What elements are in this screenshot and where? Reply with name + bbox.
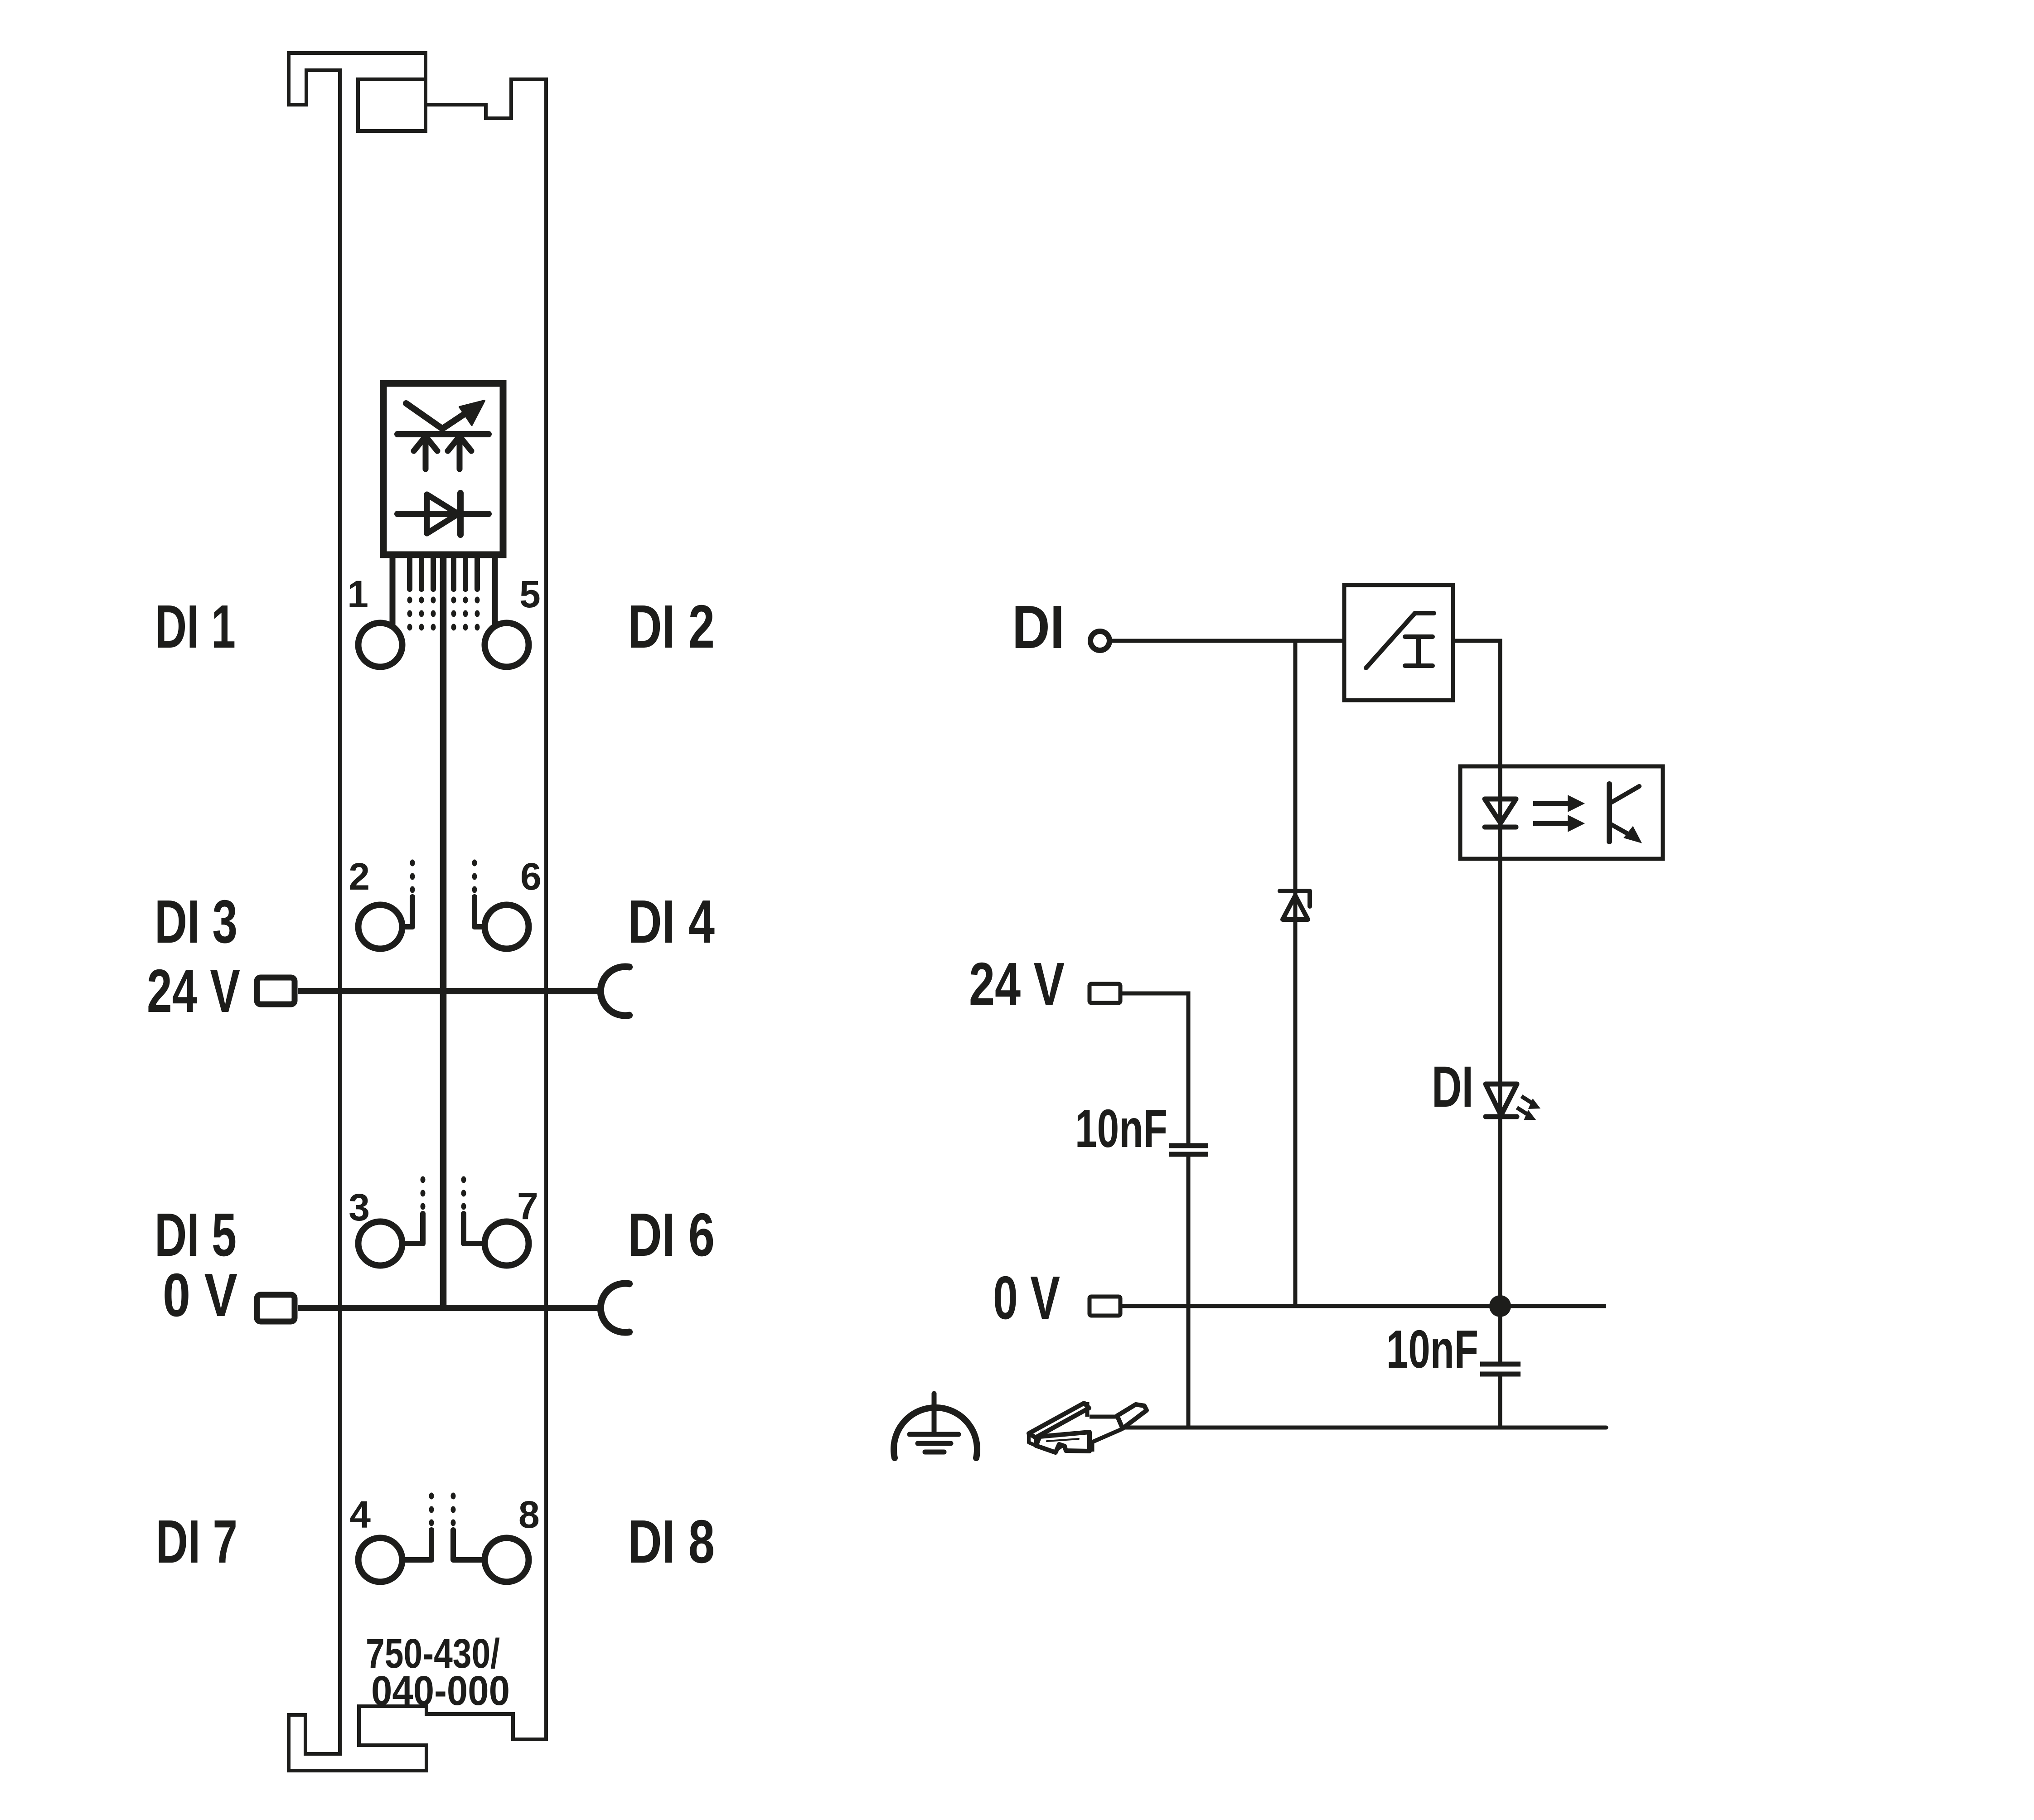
svg-text:DI 3: DI 3 [155, 887, 237, 956]
24V supply terminal [1090, 984, 1120, 1003]
wire junction to C2 [1498, 1306, 1502, 1362]
svg-text:DI 6: DI 6 [628, 1200, 715, 1269]
svg-text:1: 1 [347, 573, 368, 615]
svg-text:DI 2: DI 2 [628, 592, 715, 661]
24V wire [298, 988, 603, 994]
svg-text:10nF: 10nF [1075, 1099, 1167, 1159]
LED DI indicator [1486, 1084, 1517, 1117]
surge arrester symbol [397, 401, 489, 469]
svg-text:DI: DI [1432, 1055, 1473, 1119]
svg-text:24 V: 24 V [147, 957, 240, 1025]
svg-text:10nF: 10nF [1386, 1319, 1478, 1380]
wire Schmitt to optocoupler [1453, 641, 1500, 766]
contact 6 hook wire [475, 897, 485, 927]
wire C1 to rail bus [1186, 1157, 1191, 1428]
wire DI to Schmitt trigger [1109, 639, 1344, 643]
24V terminal [257, 978, 295, 1004]
svg-text:0 V: 0 V [163, 1261, 237, 1329]
svg-text:4: 4 [349, 1493, 371, 1536]
optocoupler light arrows [1533, 795, 1585, 832]
contact 5 [485, 623, 529, 667]
svg-text:7: 7 [517, 1185, 538, 1227]
contact 7 hook wire [464, 1214, 485, 1244]
svg-text:DI 5: DI 5 [155, 1200, 237, 1269]
24V supply wire [1120, 993, 1188, 1143]
contact 2 dotted tail [410, 860, 415, 866]
contact 3 hook wire [402, 1214, 423, 1244]
svg-text:0 V: 0 V [993, 1263, 1060, 1332]
svg-text:DI 8: DI 8 [628, 1507, 715, 1576]
contact 8 [485, 1538, 529, 1582]
suppressor diode D1 [1280, 891, 1310, 920]
capacitor C1 10nF [1169, 1146, 1208, 1154]
contact 4 dotted tail [429, 1493, 434, 1500]
0V supply terminal [1090, 1297, 1120, 1316]
bottom ground bus wire [1123, 1426, 1606, 1430]
contact 6 dotted tail [472, 860, 477, 866]
contact 4 [358, 1538, 402, 1582]
contact 2 [358, 905, 402, 949]
LED emission arrows [1517, 1096, 1540, 1120]
contact 4 hook wire [402, 1530, 431, 1560]
Schmitt trigger box U2 [1344, 585, 1453, 700]
svg-text:DI 7: DI 7 [156, 1507, 237, 1576]
node DI terminal circle [1090, 631, 1109, 650]
DIN rail symbol [1029, 1402, 1147, 1452]
wire through optocoupler down to LED [1498, 766, 1502, 1308]
contact 2 hook wire [402, 897, 412, 927]
svg-text:3: 3 [349, 1186, 370, 1229]
wire C2 to bottom bus [1498, 1376, 1502, 1428]
contact 8 dotted tail [451, 1493, 456, 1500]
contact 1 [358, 623, 402, 667]
optocoupler phototransistor [1609, 784, 1644, 843]
svg-text:DI 4: DI 4 [628, 887, 715, 956]
DI4 crescent contact [601, 967, 629, 1016]
svg-text:DI 1: DI 1 [155, 592, 236, 661]
wire branch down to suppressor diode [1293, 641, 1298, 1308]
DI6 crescent contact [601, 1283, 629, 1332]
optocoupler LED [1485, 799, 1516, 827]
svg-text:24 V: 24 V [969, 950, 1065, 1018]
optocoupler box U3 [1460, 766, 1663, 859]
0V terminal [257, 1295, 295, 1321]
contact 3 [358, 1222, 402, 1266]
central bus wire [440, 555, 447, 1308]
svg-text:DI: DI [1012, 593, 1065, 661]
bus pins with dotted continuation [407, 555, 480, 631]
contact 7 dotted tail [461, 1176, 466, 1183]
svg-text:6: 6 [520, 855, 542, 898]
junction dot node 0V [1489, 1295, 1511, 1317]
diode symbol in box [397, 493, 489, 535]
electronics box U1 [383, 383, 503, 555]
ground symbol (noiseless earth) [894, 1394, 977, 1458]
0V wire [1120, 1304, 1606, 1308]
contact 6 [485, 905, 529, 949]
pin 1 leg wire [390, 555, 396, 626]
svg-text:2: 2 [349, 855, 370, 898]
svg-text:040-000: 040-000 [371, 1668, 510, 1714]
capacitor C2 10nF [1480, 1364, 1521, 1374]
module outline [289, 53, 546, 1771]
svg-text:8: 8 [518, 1493, 540, 1536]
contact 3 dotted tail [421, 1176, 426, 1183]
contact 8 hook wire [453, 1530, 485, 1560]
Schmitt trigger symbol [1366, 613, 1434, 668]
contact 7 [485, 1222, 529, 1266]
0V wire [298, 1305, 603, 1311]
svg-text:5: 5 [519, 573, 541, 615]
pin 5 leg wire [492, 555, 498, 626]
